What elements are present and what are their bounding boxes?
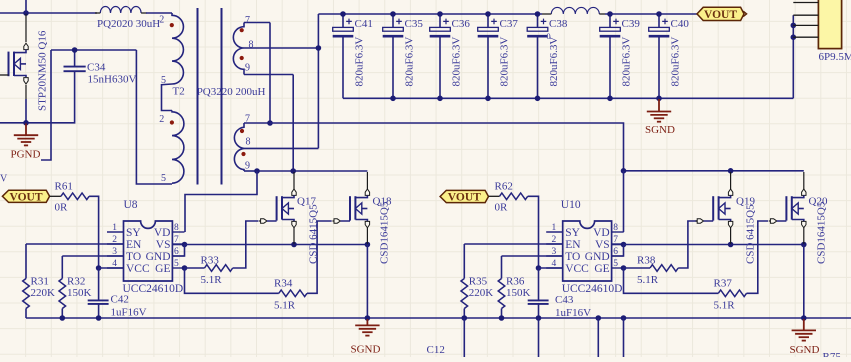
- wire - top edge stub: [25, 0, 27, 13]
- wire - inductor to T2 pin2: [146, 12, 172, 14]
- resistor R31 zigzag: [23, 279, 30, 309]
- wire - VS net to Q19/Q20 sources: [624, 244, 804, 246]
- wire - R31 bottom lead: [25, 309, 27, 319]
- svg-text:820uF6.3V: 820uF6.3V: [404, 37, 416, 87]
- wire - sec top pin8 tap to VOUT riser: [244, 47, 318, 49]
- wire - VD net to Q17/Q18 drains: [257, 170, 367, 172]
- svg-text:C35: C35: [405, 18, 424, 30]
- svg-text:820uF6.3V: 820uF6.3V: [499, 37, 511, 87]
- wire - GND tie to VS: [172, 245, 184, 257]
- svg-text:R61: R61: [55, 180, 73, 192]
- resistor R61 zigzag: [61, 193, 89, 200]
- svg-text:C42: C42: [111, 294, 129, 306]
- svg-text:2: 2: [159, 15, 164, 26]
- svg-text:UCC24610D: UCC24610D: [123, 283, 184, 295]
- wire - GE to R37: [624, 268, 719, 293]
- junction - rail at Q18 src: [365, 315, 371, 321]
- inductor PQ2020 30uH: [100, 7, 141, 14]
- transformer T2 secondary winding top (pins 7-8-9): [233, 23, 244, 75]
- wire - exits bottom at x=464.3: [463, 318, 465, 357]
- svg-text:C39: C39: [622, 18, 641, 30]
- capacitor C36: [430, 14, 471, 98]
- wire - caps bottom rail SGND: [343, 97, 793, 99]
- svg-text:C40: C40: [671, 18, 690, 30]
- svg-text:GND: GND: [146, 251, 171, 263]
- wire - Q16 source to PGND node: [25, 99, 27, 123]
- resistor R35 zigzag: [461, 279, 468, 309]
- svg-text:R38: R38: [637, 254, 656, 266]
- transistor Q19: [696, 172, 757, 264]
- junction - pin7 net: [267, 120, 273, 126]
- ground SGND left: [355, 319, 379, 336]
- svg-text:R33: R33: [201, 254, 220, 266]
- polarity dot sec-bot lower: [241, 152, 245, 156]
- junction - C34 top: [72, 47, 78, 53]
- svg-text:8: 8: [246, 136, 251, 147]
- svg-text:V: V: [0, 174, 8, 185]
- wire - R37 to Q20 gate: [747, 221, 769, 293]
- capacitor C43: [538, 268, 540, 300]
- svg-text:5: 5: [161, 75, 166, 86]
- svg-text:150K: 150K: [506, 287, 531, 299]
- resistor R36 zigzag: [498, 279, 505, 309]
- svg-text:5.1R: 5.1R: [637, 274, 659, 286]
- junction - C40 top: [656, 11, 662, 17]
- svg-text:0R: 0R: [495, 201, 509, 213]
- transformer T2 primary winding top (pins 2-5): [162, 13, 184, 111]
- svg-text:R36: R36: [506, 275, 525, 287]
- svg-text:9: 9: [245, 161, 250, 172]
- svg-text:VOUT: VOUT: [448, 192, 481, 204]
- wire - VD riser to U10 pin8: [623, 171, 625, 232]
- connector 6P9.5M: [793, 0, 851, 63]
- svg-text:SGND: SGND: [645, 124, 675, 136]
- svg-text:15nH630V: 15nH630V: [88, 73, 137, 85]
- resistor R38 zigzag: [650, 265, 678, 272]
- svg-text:VS: VS: [156, 239, 171, 251]
- svg-text:6P9.5M: 6P9.5M: [819, 51, 851, 63]
- svg-text:C34: C34: [87, 61, 106, 73]
- wire - R35 bottom lead: [463, 309, 465, 319]
- junction - GE node U10: [621, 265, 627, 271]
- inductor on VOUT rail: [551, 7, 599, 14]
- junction - rail at C42: [96, 315, 102, 321]
- wire - snubber top: [51, 49, 136, 51]
- svg-text:CSD 6415Q5: CSD 6415Q5: [745, 204, 757, 264]
- svg-text:U8: U8: [124, 199, 138, 211]
- wire - sec pin7 net long horizontal: [270, 123, 624, 171]
- wire - snubber left leg: [41, 50, 51, 160]
- junction - C38 bottom: [535, 96, 541, 102]
- wire - Q20 source to SGND rail: [803, 245, 805, 319]
- junction - C40 bottom: [656, 96, 662, 102]
- wire - TO to R32: [62, 255, 123, 257]
- wire - R35 top lead: [463, 244, 465, 279]
- svg-text:PQ3220 200uH: PQ3220 200uH: [197, 86, 266, 98]
- wire - R32 top lead: [61, 256, 63, 279]
- ground PGND: [14, 124, 38, 146]
- svg-text:VD: VD: [593, 227, 610, 239]
- svg-text:2: 2: [159, 114, 164, 125]
- svg-text:5.1R: 5.1R: [201, 274, 223, 286]
- wire - GND tie to VS U10: [612, 245, 624, 257]
- svg-text:VOUT: VOUT: [704, 9, 737, 21]
- port VOUT top: [697, 7, 744, 21]
- svg-text:R62: R62: [495, 180, 513, 192]
- junction - connector pin4: [791, 34, 797, 40]
- resistor R62: [489, 195, 500, 197]
- svg-text:C41: C41: [355, 18, 373, 30]
- svg-text:CSD16415Q5: CSD16415Q5: [378, 201, 390, 264]
- wire - pin7 tie vertical: [269, 23, 271, 124]
- svg-text:R75: R75: [823, 351, 842, 357]
- capacitor C34: [64, 50, 137, 85]
- junction - Q17 source node: [291, 242, 297, 248]
- junction - VS node U10: [621, 242, 627, 248]
- wire - Q18 source to SGND rail: [366, 245, 368, 319]
- port VOUT left: [2, 190, 49, 203]
- wire - VOUT rail left of L: [318, 13, 542, 15]
- ground SGND right: [792, 319, 816, 341]
- junction - Q17 drain node: [290, 168, 296, 174]
- polarity dot T2 pin2 top: [170, 23, 174, 27]
- svg-text:TO: TO: [126, 251, 141, 263]
- wire - drain net left segment: [0, 12, 97, 14]
- wire - TO to R36: [502, 255, 563, 257]
- svg-text:CSD16415Q5: CSD16415Q5: [816, 201, 828, 264]
- junction - pin9 node: [254, 168, 260, 174]
- svg-text:C38: C38: [549, 18, 568, 30]
- svg-text:7: 7: [245, 15, 250, 26]
- svg-text:820uF6.3V: 820uF6.3V: [354, 37, 366, 87]
- svg-text:PQ2020 30uH: PQ2020 30uH: [97, 18, 160, 30]
- wire - VCC stub U10: [539, 267, 563, 269]
- junction - GE node U8: [182, 265, 188, 271]
- capacitor C35: [383, 14, 424, 98]
- wire - VCC stub: [99, 267, 124, 269]
- wire - exits bottom at x=598.3: [597, 318, 599, 357]
- resistor R33 zigzag: [205, 265, 233, 272]
- svg-text:VOUT: VOUT: [10, 191, 43, 203]
- junction - rail at down1: [596, 315, 602, 321]
- wire - R38 to Q19 gate: [678, 221, 700, 268]
- transistor Q17: [259, 172, 320, 264]
- wire - VD net right to Q19/Q20 drains: [624, 170, 804, 172]
- wire - R36 bottom lead: [501, 309, 503, 319]
- ground SGND top: [647, 99, 671, 122]
- junction - C41 top: [340, 11, 346, 17]
- junction - C37 bottom: [485, 96, 491, 102]
- resistor R61: [50, 195, 61, 197]
- wire - VOUT riser from taps: [317, 14, 319, 148]
- svg-text:SGND: SGND: [790, 344, 820, 356]
- svg-text:820uF6.3V: 820uF6.3V: [548, 37, 560, 87]
- transistor Q20: [769, 172, 828, 264]
- wire - sec bottom pin7 stub: [244, 122, 270, 124]
- svg-text:T2: T2: [173, 86, 185, 98]
- wire - exits bottom at x=623.5: [623, 318, 625, 357]
- transformer T2 primary winding bottom (pins 2-5): [172, 111, 184, 184]
- wire - GE to R33: [185, 267, 205, 269]
- wire - sec top pin7 stub: [244, 22, 270, 24]
- svg-text:C43: C43: [555, 294, 574, 306]
- junction - C36 bottom: [437, 96, 443, 102]
- svg-text:TO: TO: [565, 251, 580, 263]
- junction - Q18 source node: [365, 242, 371, 248]
- transformer T2 secondary winding bottom (pins 7-8-9): [234, 123, 244, 171]
- wire - PGND net / C34 bottom: [0, 72, 75, 123]
- svg-text:820uF6.3V: 820uF6.3V: [451, 37, 463, 87]
- polarity dot T2 pin2 bottom: [170, 120, 174, 124]
- svg-text:R35: R35: [469, 275, 488, 287]
- resistor R37 zigzag: [718, 290, 746, 297]
- junction - C39 bottom: [607, 96, 613, 102]
- wire - VS net to Q17/Q18 sources: [185, 244, 368, 246]
- svg-text:C37: C37: [500, 18, 519, 30]
- capacitor C40: [649, 14, 690, 98]
- junction - C35 bottom: [390, 96, 396, 102]
- svg-text:SY: SY: [126, 227, 141, 239]
- svg-text:C36: C36: [452, 18, 471, 30]
- polarity dot sec-bot upper: [240, 129, 244, 133]
- junction - VCC node U10: [536, 265, 542, 271]
- svg-text:R37: R37: [714, 277, 733, 289]
- transformer T2 core: [198, 8, 222, 185]
- junction - tap8 top on riser: [316, 45, 322, 51]
- junction - VS node U8: [182, 242, 188, 248]
- port VOUT right: [440, 190, 488, 203]
- wire - VD riser to U8 pin8: [185, 171, 257, 232]
- svg-text:0: 0: [546, 31, 550, 41]
- wire - R62 to VCC U10: [528, 196, 539, 268]
- junction - C36 top: [437, 11, 443, 17]
- svg-text:C12: C12: [427, 344, 445, 356]
- wire - VS stub: [172, 244, 184, 246]
- junction - rail at down2: [621, 315, 627, 321]
- capacitor C41: [333, 14, 373, 98]
- junction - rail at C43: [536, 315, 542, 321]
- wire - R33 to Q17 gate: [233, 221, 259, 268]
- junction - rail at R36: [499, 315, 505, 321]
- resistor R34 zigzag: [279, 290, 307, 297]
- junction - rail at R35: [462, 315, 468, 321]
- transistor Q16: [0, 14, 49, 111]
- wire - rail up to connector pins: [792, 15, 794, 98]
- svg-text:VCC: VCC: [565, 263, 589, 275]
- resistor R32 zigzag: [59, 279, 66, 309]
- svg-text:GND: GND: [585, 251, 610, 263]
- capacitor C39: [600, 14, 641, 98]
- svg-text:EN: EN: [565, 239, 581, 251]
- svg-text:R34: R34: [274, 277, 293, 289]
- wire - R61 to VCC: [89, 196, 99, 268]
- svg-text:220K: 220K: [469, 287, 494, 299]
- polarity dot sec-top upper: [240, 28, 244, 32]
- transistor Q18: [332, 172, 392, 264]
- svg-text:CSD 6415Q5: CSD 6415Q5: [308, 204, 320, 264]
- wire - sec bottom pin8 tap: [244, 147, 318, 149]
- svg-text:R31: R31: [31, 275, 49, 287]
- svg-text:220K: 220K: [31, 287, 56, 299]
- wire - sec bottom pin9 stub: [244, 170, 257, 172]
- svg-text:VCC: VCC: [126, 263, 150, 275]
- junction - C37 top: [485, 11, 491, 17]
- op-amp U8 UCC24610D: [107, 199, 185, 295]
- junction - VCC node U8: [96, 265, 102, 271]
- svg-text:1uF16V: 1uF16V: [555, 307, 591, 319]
- svg-text:EN: EN: [126, 239, 142, 251]
- svg-text:7: 7: [245, 114, 250, 125]
- op-amp U10 UCC24610D: [546, 199, 624, 295]
- polarity dot sec-top lower: [240, 56, 244, 60]
- svg-text:820uF6.3V: 820uF6.3V: [670, 37, 682, 87]
- junction - U10 VD node: [621, 168, 627, 174]
- junction - C38 top: [535, 11, 541, 17]
- wire - sec top pin9 stub: [244, 74, 293, 76]
- wire - R36 top lead: [501, 256, 503, 279]
- wire - VS stub U10: [612, 244, 624, 246]
- svg-text:GE: GE: [594, 263, 609, 275]
- svg-text:5.1R: 5.1R: [274, 299, 296, 311]
- junction - C35 top: [390, 11, 396, 17]
- junction - C39 top: [607, 11, 613, 17]
- svg-text:SGND: SGND: [351, 344, 381, 356]
- svg-text:SY: SY: [565, 227, 580, 239]
- wire - R32 bottom lead: [61, 309, 63, 319]
- svg-text:820uF6.3V: 820uF6.3V: [621, 37, 633, 87]
- svg-text:VS: VS: [595, 239, 610, 251]
- wire - bottom VS/SGND rail: [26, 317, 851, 319]
- wire - exits bottom at x=538.5: [538, 318, 540, 357]
- svg-text:U10: U10: [561, 199, 581, 211]
- junction - Q19 source node: [728, 242, 734, 248]
- resistor R62 zigzag: [500, 193, 528, 200]
- svg-text:150K: 150K: [67, 287, 92, 299]
- svg-text:R32: R32: [67, 275, 85, 287]
- wire - GE to R34: [185, 268, 279, 293]
- wire - EN to R35: [464, 243, 562, 245]
- svg-text:VD: VD: [154, 227, 171, 239]
- wire - VOUT rail to port: [605, 13, 697, 15]
- junction - Q16 drain node: [23, 10, 29, 16]
- svg-text:5.1R: 5.1R: [714, 299, 736, 311]
- junction - connector pin3: [791, 23, 797, 29]
- svg-text:STP20NM50 Q16: STP20NM50 Q16: [37, 30, 49, 111]
- svg-text:1uF16V: 1uF16V: [111, 307, 147, 319]
- wire - R34 to Q18 gate: [307, 221, 332, 293]
- capacitor C42: [98, 268, 100, 300]
- junction - rail at R32: [60, 315, 66, 321]
- capacitor C37: [478, 14, 519, 98]
- junction - PGND node: [23, 120, 29, 126]
- wire - EN to R31: [26, 243, 124, 245]
- junction - Q20 source node: [801, 242, 807, 248]
- junction - Q19 drain node: [728, 168, 734, 174]
- svg-text:8: 8: [249, 40, 254, 51]
- svg-text:GE: GE: [155, 263, 170, 275]
- svg-text:PGND: PGND: [11, 149, 41, 161]
- wire - R31 top lead: [25, 244, 27, 279]
- wire - snubber right leg to T2 pin5: [136, 50, 172, 184]
- svg-text:5: 5: [161, 173, 166, 184]
- junction - rail at Q20 src: [801, 315, 807, 321]
- wire - GE to R38: [624, 267, 651, 269]
- wire - pin9 top to Q17 drain vertical: [292, 75, 294, 172]
- svg-text:9: 9: [245, 63, 250, 74]
- svg-text:0R: 0R: [55, 201, 69, 213]
- capacitor C38: [527, 14, 568, 98]
